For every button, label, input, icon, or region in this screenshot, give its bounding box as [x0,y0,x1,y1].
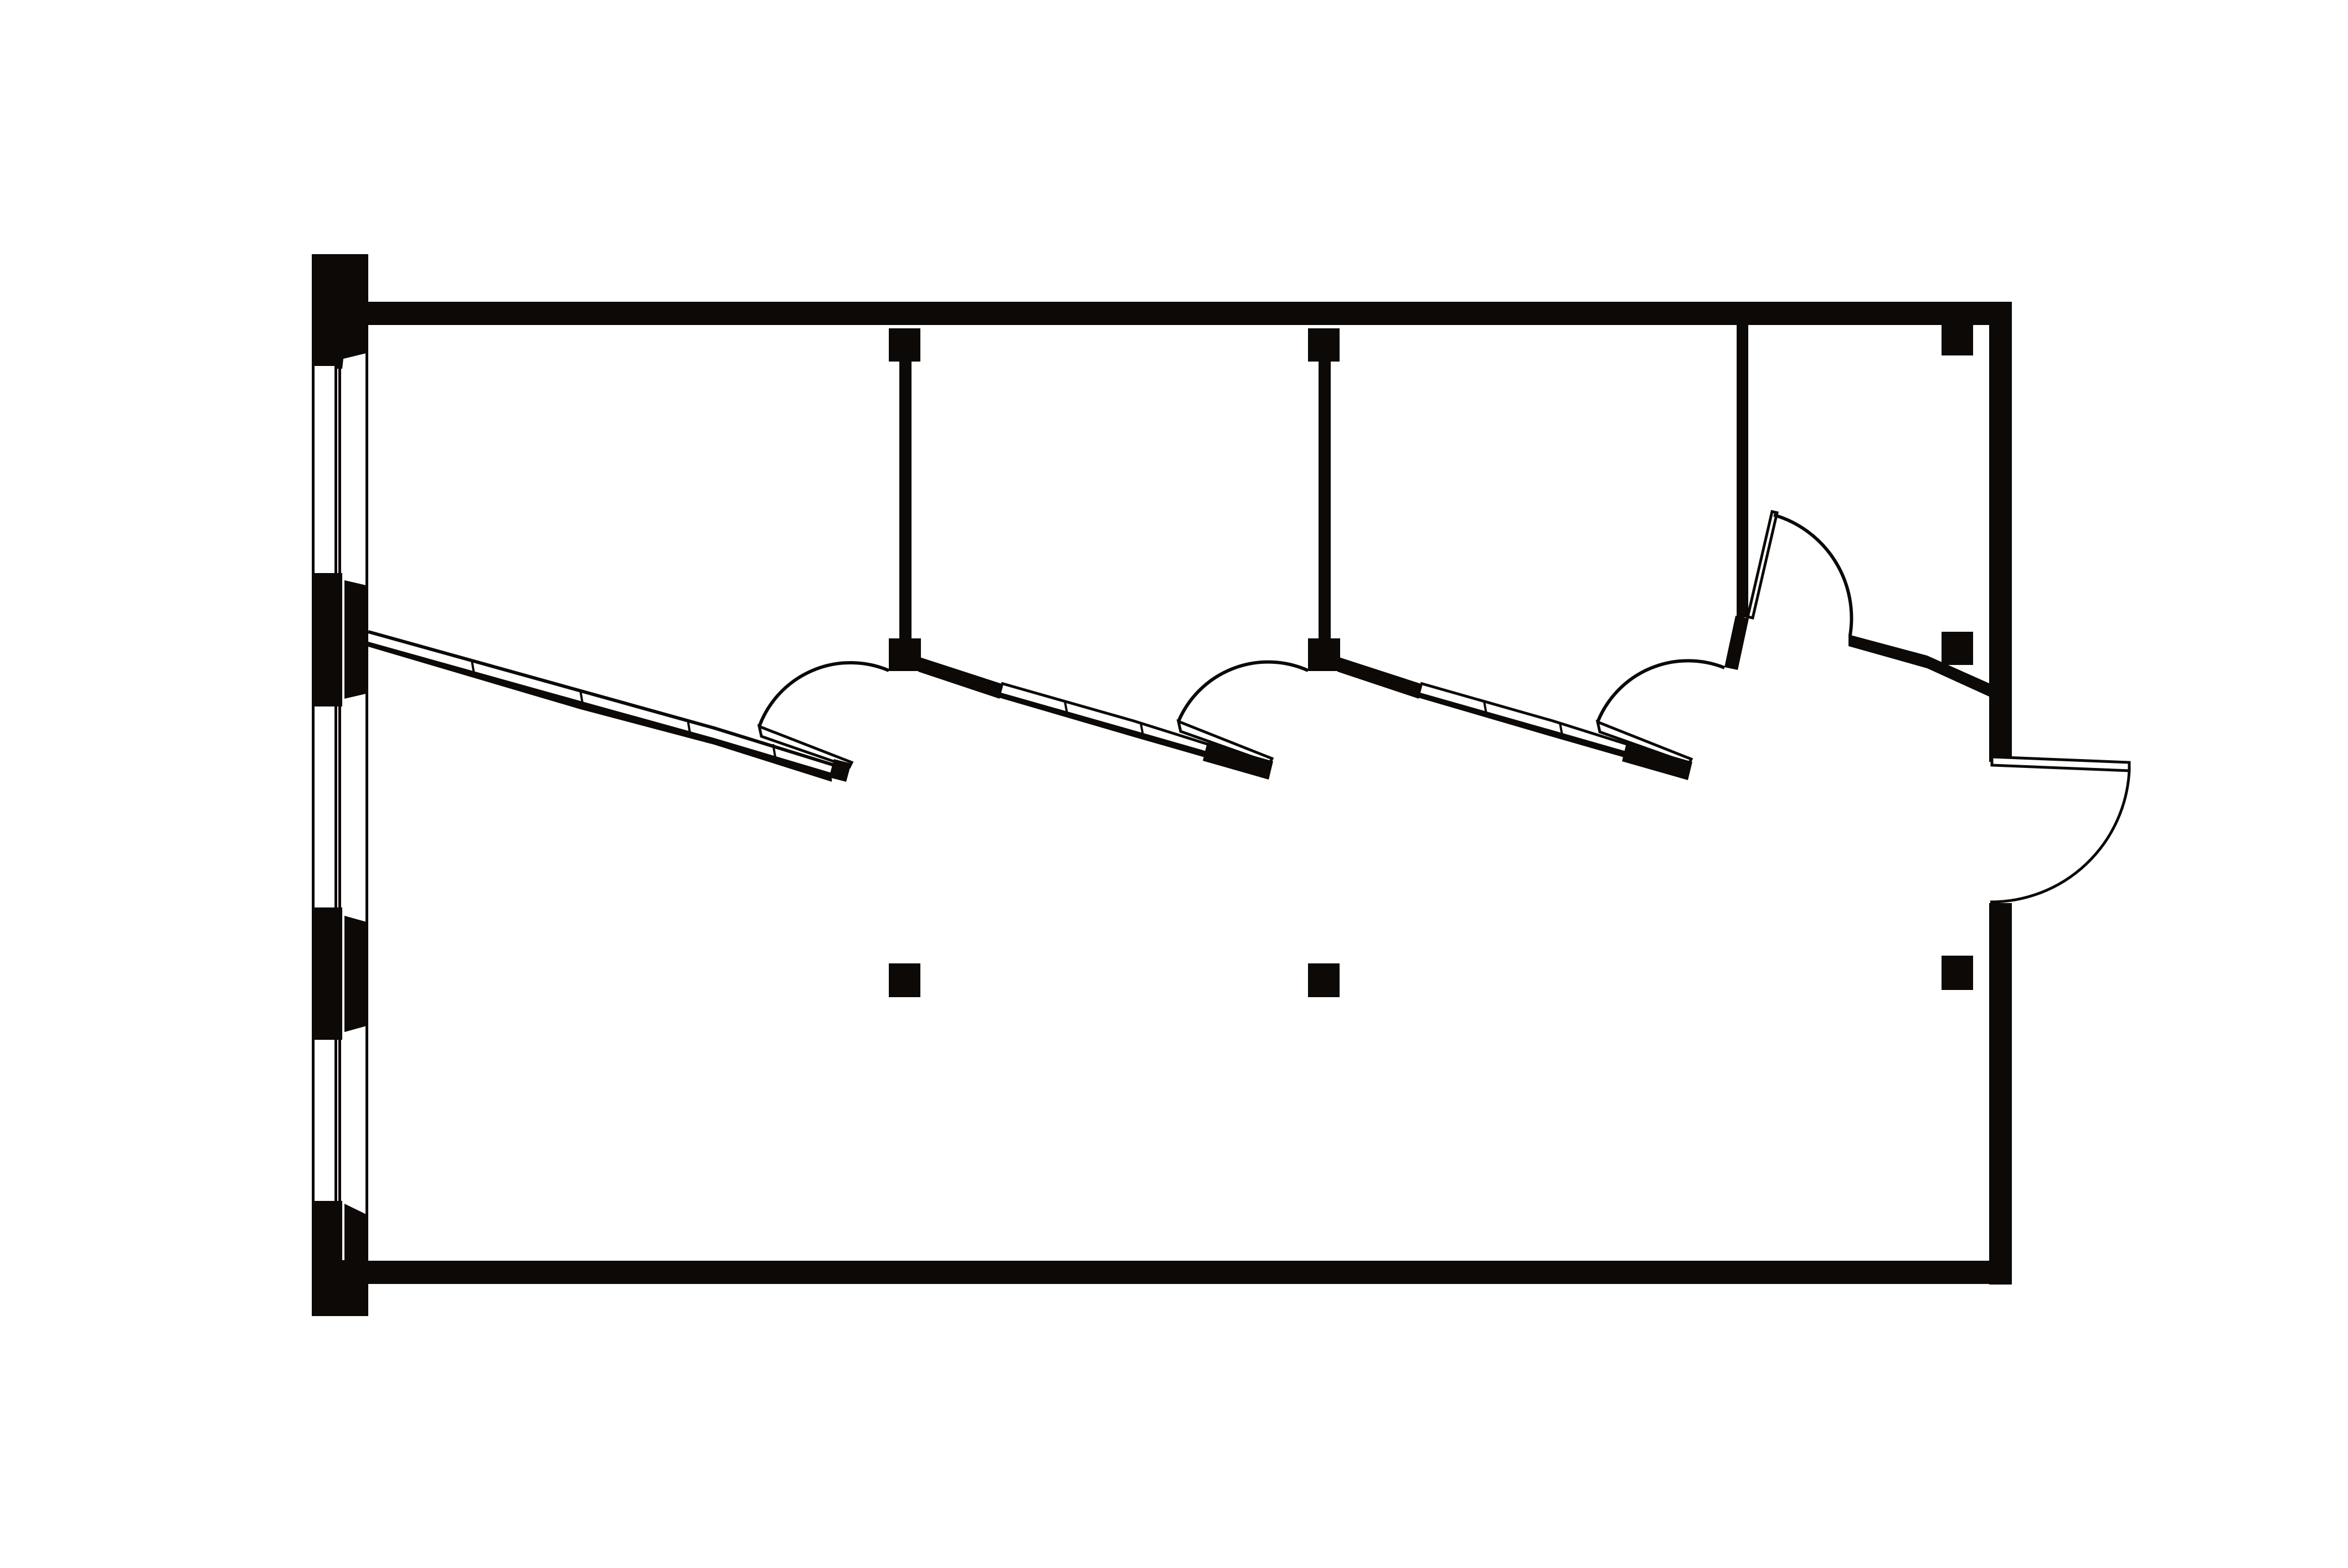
window glass line B [338,365,341,1207]
column C3 [1942,956,1973,990]
bay 3 blade bottom edge [1418,692,1628,759]
window pier P3 right [344,916,368,1032]
bay 1 blade tick 2 [580,690,583,704]
window pier P4 slit filler [341,1260,346,1316]
window pier P1 [312,254,368,369]
partition 3 tilted foot [1724,616,1749,670]
window inner line [365,254,368,1316]
bay 3 door swing arc [1598,661,1724,722]
window pier P4 right [344,1204,368,1316]
bay 2 blade solid start [918,657,1003,699]
bay 3 blade tip block [1622,743,1692,780]
top-right room door swing arc [1774,515,1851,635]
window pier P3 left [312,907,342,1040]
partition 2 wall [1319,362,1331,638]
partition 2 top nub [1308,328,1340,362]
top-right room tilted wall [1848,635,1990,697]
window outer line [312,254,315,1316]
bay 1 door swing arc [759,663,889,726]
right wall nub lower [1942,632,1973,665]
window glass line A [334,365,337,1207]
bottom wall [368,1261,2012,1284]
bay 1 door leaf wedge [759,726,852,767]
partition 3 wall [1737,325,1748,617]
window pier P4 left [312,1201,342,1316]
exterior door swing arc [1990,771,2129,902]
bay 1 blade tick 4 [773,744,775,757]
window pier P2 left [312,573,342,706]
exterior door leaf [1992,757,2129,771]
partition 1 top nub [889,328,920,362]
right wall nub upper [1942,324,1973,355]
right wall lower segment [1989,903,2012,1285]
bay 3 blade solid start [1337,657,1423,699]
bay 2 blade tip block [1203,742,1273,780]
bay 1 blade tip block [829,759,851,782]
bay 2 blade tick 2 [1141,723,1143,735]
bay 2 blade bottom edge [999,692,1209,759]
top-right room door leaf [1748,512,1777,618]
bay 2 blade top edge [1001,683,1211,745]
column C2 [1308,963,1340,997]
window pier P2 right [344,580,368,699]
partition 2 bottom nub [1308,638,1340,671]
bay 2 door leaf wedge [1178,721,1272,763]
bay 2 door swing arc [1178,662,1308,721]
bay 3 blade tick 1 [1484,702,1486,714]
bay 1 blade tick 3 [688,720,690,734]
bay 1 blade tick 1 [472,661,474,674]
bay 2 blade tick 1 [1065,702,1067,714]
bay 3 blade tick 2 [1560,723,1562,735]
column C1 [889,963,920,997]
bay 3 door leaf wedge [1598,722,1691,764]
bay 1 folding blade bottom edge [368,642,832,782]
top wall [368,302,2012,325]
bay 3 blade top edge [1420,683,1630,745]
bay 1 folding blade top edge [368,632,840,767]
right wall upper segment [1989,302,2012,762]
partition 1 wall [899,362,912,638]
partition 1 bottom nub [889,638,921,671]
